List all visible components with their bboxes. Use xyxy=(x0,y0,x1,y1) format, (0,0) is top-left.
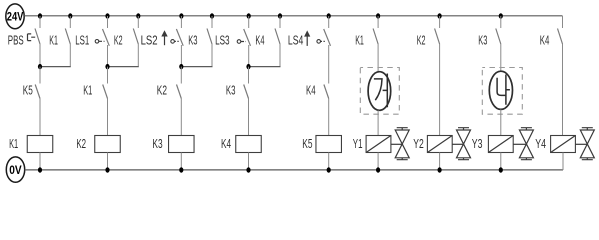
svg-text:LS4: LS4 xyxy=(288,33,303,47)
solenoid coil Y1 xyxy=(353,136,391,153)
node A junction xyxy=(38,64,42,69)
svg-text:K1: K1 xyxy=(355,33,364,47)
wire solenoid Y2 to 0V rail xyxy=(439,153,441,171)
limit switch LS3 (NO, roller) xyxy=(215,16,250,47)
svg-text:K4: K4 xyxy=(255,33,264,47)
contact K4 (NO, seal-in branch) xyxy=(255,16,280,47)
relay coil K3 xyxy=(152,136,194,153)
junction coil K1 on 0V rail xyxy=(38,167,42,172)
svg-text:K4: K4 xyxy=(221,137,231,151)
junction K1 branch on 24V rail xyxy=(68,13,72,18)
wire LS3 to node D xyxy=(248,45,250,67)
valve symbol of Y1 xyxy=(391,128,409,160)
svg-text:K2: K2 xyxy=(417,33,426,47)
svg-text:K1: K1 xyxy=(83,84,92,98)
valve symbol of Y2 xyxy=(452,128,470,160)
svg-text:K4: K4 xyxy=(306,84,316,98)
wire LS2 to node C xyxy=(180,45,182,67)
svg-text:K5: K5 xyxy=(302,137,312,151)
wire K1 row2 to coil K2 xyxy=(107,99,109,136)
wire lamp B to solenoid Y3 xyxy=(500,109,502,135)
valve symbol of Y4 xyxy=(575,128,594,160)
wire coil K5 to 0V rail xyxy=(328,153,330,171)
wire contact K3 to lamp B xyxy=(500,44,502,72)
junction Y1 on 0V rail xyxy=(376,167,380,172)
junction coil K3 on 0V rail xyxy=(179,167,183,172)
junction LS2 branch on 24V rail xyxy=(179,13,183,18)
svg-text:24V: 24V xyxy=(7,10,24,24)
wire contact K4 to solenoid Y4 xyxy=(562,44,564,136)
wire solenoid Y4 to 0V rail end xyxy=(562,153,564,171)
junction LS3 branch on 24V rail xyxy=(247,13,251,18)
junction LS1 branch on 24V rail xyxy=(105,13,109,18)
wire K4 branch elbow to node D xyxy=(279,44,281,66)
node C junction xyxy=(179,64,183,69)
contact K1 (NO, row 2) xyxy=(83,67,107,99)
wire lamp A to solenoid Y1 xyxy=(377,110,379,135)
junction LS4 branch on 24V rail xyxy=(327,13,331,18)
junction K2 branch on 24V rail xyxy=(136,13,140,18)
svg-text:K2: K2 xyxy=(157,84,167,98)
svg-text:K2: K2 xyxy=(76,137,86,151)
junction right K1 branch on 24V rail xyxy=(376,13,380,18)
junction right K2 branch on 24V rail xyxy=(438,13,442,18)
svg-text:K2: K2 xyxy=(114,33,123,47)
svg-text:K3: K3 xyxy=(152,137,162,151)
contact K1 (NO, seal-in branch) xyxy=(49,16,70,47)
svg-text:LS1: LS1 xyxy=(75,33,89,47)
wire K1 branch elbow to node A xyxy=(69,44,71,66)
relay coil K5 xyxy=(302,136,341,153)
contact K1 (NO, lamp group A column) xyxy=(355,16,378,47)
svg-text:PBS: PBS xyxy=(8,33,24,47)
junction coil K2 on 0V rail xyxy=(105,167,109,172)
relay coil K1 xyxy=(9,136,53,153)
contact K3 (NO, seal-in branch) xyxy=(188,16,212,47)
svg-text:K1: K1 xyxy=(9,137,18,151)
svg-text:Y2: Y2 xyxy=(413,137,424,151)
solenoid coil Y3 xyxy=(472,136,513,153)
svg-text:K4: K4 xyxy=(540,33,550,47)
junction K3 branch on 24V rail xyxy=(210,13,214,18)
node B junction xyxy=(105,64,109,69)
wire contact K1 to lamp A xyxy=(377,44,379,72)
svg-text:Y1: Y1 xyxy=(353,137,363,151)
junction Y2 on 0V rail xyxy=(438,167,442,172)
pushbutton PBS (NO) xyxy=(8,16,40,47)
contact K2 (NO, seal-in branch) xyxy=(114,16,138,47)
wire bottom return rail 0V xyxy=(25,169,563,171)
svg-text:LS2: LS2 xyxy=(141,33,158,47)
indicator lamp A (circle with Korean letter GA) in dashed box xyxy=(360,68,399,115)
junction coil K5 on 0V rail xyxy=(327,167,331,172)
wire top supply rail 24V xyxy=(24,15,562,17)
contact K4 (NO, solenoid Y4 column at rail end) xyxy=(540,16,563,47)
wire coil K3 to 0V rail xyxy=(180,153,182,171)
svg-text:Y3: Y3 xyxy=(472,137,483,151)
contact K4 (NO, row 2) xyxy=(306,84,329,99)
svg-text:K5: K5 xyxy=(23,84,33,98)
power source 0V terminal xyxy=(6,157,24,182)
wire K2 branch elbow to node B xyxy=(137,44,139,66)
junction PBS branch on 24V rail xyxy=(38,13,42,18)
limit switch LS4 (NO, arrow actuator) xyxy=(288,16,331,47)
svg-text:0V: 0V xyxy=(9,163,21,177)
wire PBS to node A xyxy=(39,44,41,67)
junction K4 branch on 24V rail xyxy=(278,13,282,18)
svg-text:LS3: LS3 xyxy=(215,33,230,47)
junction right K3 branch on 24V rail xyxy=(499,13,503,18)
wire K4 row2 to coil K5 xyxy=(328,99,330,136)
limit switch LS2 (NO, arrow actuator) xyxy=(141,16,184,47)
junction Y3 on 0V rail xyxy=(499,167,503,172)
svg-text:Y4: Y4 xyxy=(535,137,546,151)
wire contact K2 to solenoid Y2 xyxy=(439,44,441,136)
svg-text:K1: K1 xyxy=(49,33,58,47)
contact K2 (NO, row 2) xyxy=(157,67,182,99)
contact K2 (NO, solenoid Y2 column) xyxy=(417,16,440,47)
power source 24V terminal xyxy=(6,4,24,29)
relay coil K4 xyxy=(221,136,261,153)
contact K3 (NO, lamp group B column) xyxy=(478,16,501,47)
wire K5 to coil K1 xyxy=(39,99,41,136)
indicator lamp B (circle with Korean letter NA) in dashed box xyxy=(482,68,522,115)
solenoid coil Y4 xyxy=(535,136,575,153)
junction coil K4 on 0V rail xyxy=(246,167,250,172)
contact K3 (NO, row 2) xyxy=(226,67,249,99)
wire solenoid Y3 to 0V rail xyxy=(500,153,502,171)
valve symbol of Y3 xyxy=(513,128,533,160)
wire K2 row2 to coil K3 xyxy=(180,99,182,136)
wire LS4 down to contact K4 row2 xyxy=(328,45,330,84)
wire coil K1 to 0V rail xyxy=(39,153,41,171)
svg-text:K3: K3 xyxy=(188,33,197,47)
node D junction xyxy=(246,64,250,69)
limit switch LS1 (NO, roller) xyxy=(75,16,109,47)
svg-text:K3: K3 xyxy=(226,84,236,98)
relay coil K2 xyxy=(76,136,120,153)
wire solenoid Y1 to 0V rail xyxy=(377,153,379,171)
wire coil K4 to 0V rail xyxy=(248,153,250,171)
solenoid coil Y2 xyxy=(413,136,452,153)
wire K3 branch elbow to node C xyxy=(211,44,213,66)
contact K5 (NO, row 2) xyxy=(23,67,40,99)
svg-text:K3: K3 xyxy=(478,33,487,47)
wire K3 row2 to coil K4 xyxy=(248,99,250,136)
wire LS1 to node B xyxy=(107,45,109,67)
wire coil K2 to 0V rail xyxy=(107,153,109,171)
